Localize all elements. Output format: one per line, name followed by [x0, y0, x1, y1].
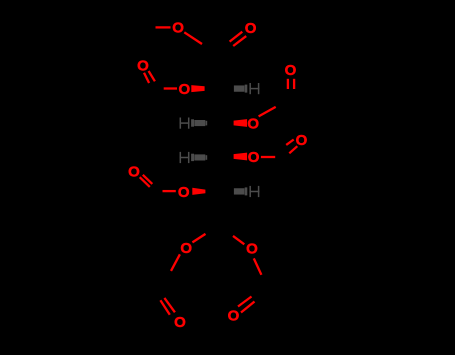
svg-text:O: O [174, 314, 186, 331]
svg-text:O: O [247, 116, 259, 133]
svg-text:O: O [137, 58, 149, 75]
svg-text:O: O [248, 149, 260, 166]
svg-text:O: O [172, 20, 184, 37]
svg-text:O: O [180, 240, 192, 257]
svg-text:O: O [285, 62, 297, 79]
svg-text:O: O [128, 163, 140, 180]
svg-text:O: O [178, 81, 190, 98]
svg-text:O: O [246, 241, 258, 258]
svg-text:O: O [296, 132, 308, 149]
svg-text:O: O [228, 308, 240, 325]
svg-text:O: O [245, 20, 257, 37]
svg-text:O: O [178, 184, 190, 201]
